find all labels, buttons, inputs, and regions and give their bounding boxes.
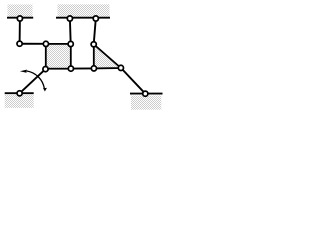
pin joint square BL bbox=[43, 67, 48, 72]
rotation arc arrow (double-headed) bbox=[27, 71, 44, 88]
link L6 (square BR to triangle BL) bbox=[71, 67, 94, 69]
pin joint triangle BR bbox=[118, 65, 123, 70]
link L4 (P5 down to triangle top) bbox=[94, 19, 96, 45]
pin joint square TL bbox=[43, 41, 48, 46]
pin joint J2 (elbow left) bbox=[17, 41, 22, 46]
ground support G4 (bottom-right) hatch bbox=[131, 96, 161, 110]
pin joint P5 (on G2 right) bbox=[93, 16, 98, 21]
ground support G2 base line bbox=[56, 17, 110, 19]
pin joint P4 (on G2 left) bbox=[67, 16, 72, 21]
arrowhead (lower end of arc) bbox=[43, 88, 47, 92]
ground support G1 (top-left) hatch bbox=[8, 4, 33, 16]
triangle body (hatched rigid link) bbox=[94, 44, 121, 68]
link L3 (P4 down to square TR) bbox=[69, 19, 72, 44]
ground support G3 base line bbox=[5, 92, 34, 94]
arrowhead (left end of arc) bbox=[20, 70, 27, 73]
link L7 (triangle BR down-right to P7) bbox=[121, 68, 145, 94]
pin joint square TR bbox=[68, 41, 73, 46]
ground support G1 base line bbox=[7, 17, 33, 19]
ground support G2 (top-middle) hatch bbox=[58, 4, 110, 16]
pin joint triangle BL bbox=[91, 66, 96, 71]
pin joint P1 (on G1) bbox=[17, 16, 22, 21]
pin joint triangle top bbox=[91, 42, 96, 47]
ground support G3 (bottom-left) hatch bbox=[5, 95, 34, 108]
pin joint P6 (on G3) bbox=[17, 91, 22, 96]
link L2 (J2 right to square TL) bbox=[20, 43, 46, 45]
link L5 crank (square BL down-left to P6) bbox=[20, 69, 46, 93]
pin joint P7 (on G4) bbox=[143, 91, 148, 96]
link L1 (P1 down to J2) bbox=[19, 19, 21, 44]
ground support G4 base line bbox=[130, 93, 163, 95]
square body (hatched rigid link) bbox=[46, 44, 71, 69]
pin joint square BR bbox=[68, 66, 73, 71]
